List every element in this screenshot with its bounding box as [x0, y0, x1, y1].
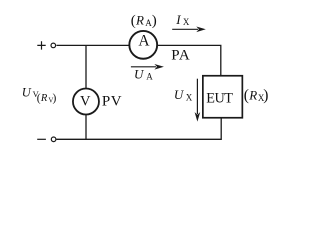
svg-text:R: R: [40, 93, 48, 104]
svg-text:A: A: [146, 72, 153, 82]
svg-text:R: R: [135, 12, 144, 27]
svg-text:A: A: [138, 33, 150, 50]
svg-text:): ): [53, 93, 57, 105]
svg-text:I: I: [175, 12, 181, 27]
svg-text:): ): [263, 87, 268, 104]
svg-text:U: U: [174, 87, 185, 102]
svg-text:U: U: [22, 85, 32, 99]
svg-text:V: V: [80, 93, 91, 109]
svg-text:(: (: [244, 87, 249, 104]
svg-text:(: (: [131, 13, 136, 29]
svg-text:X: X: [186, 93, 193, 103]
svg-text:PA: PA: [171, 48, 190, 64]
svg-text:R: R: [248, 87, 257, 102]
svg-text:EUT: EUT: [206, 90, 233, 106]
svg-text:PV: PV: [102, 93, 122, 109]
svg-text:X: X: [183, 17, 190, 27]
svg-text:): ): [152, 13, 157, 29]
svg-text:U: U: [134, 66, 145, 81]
